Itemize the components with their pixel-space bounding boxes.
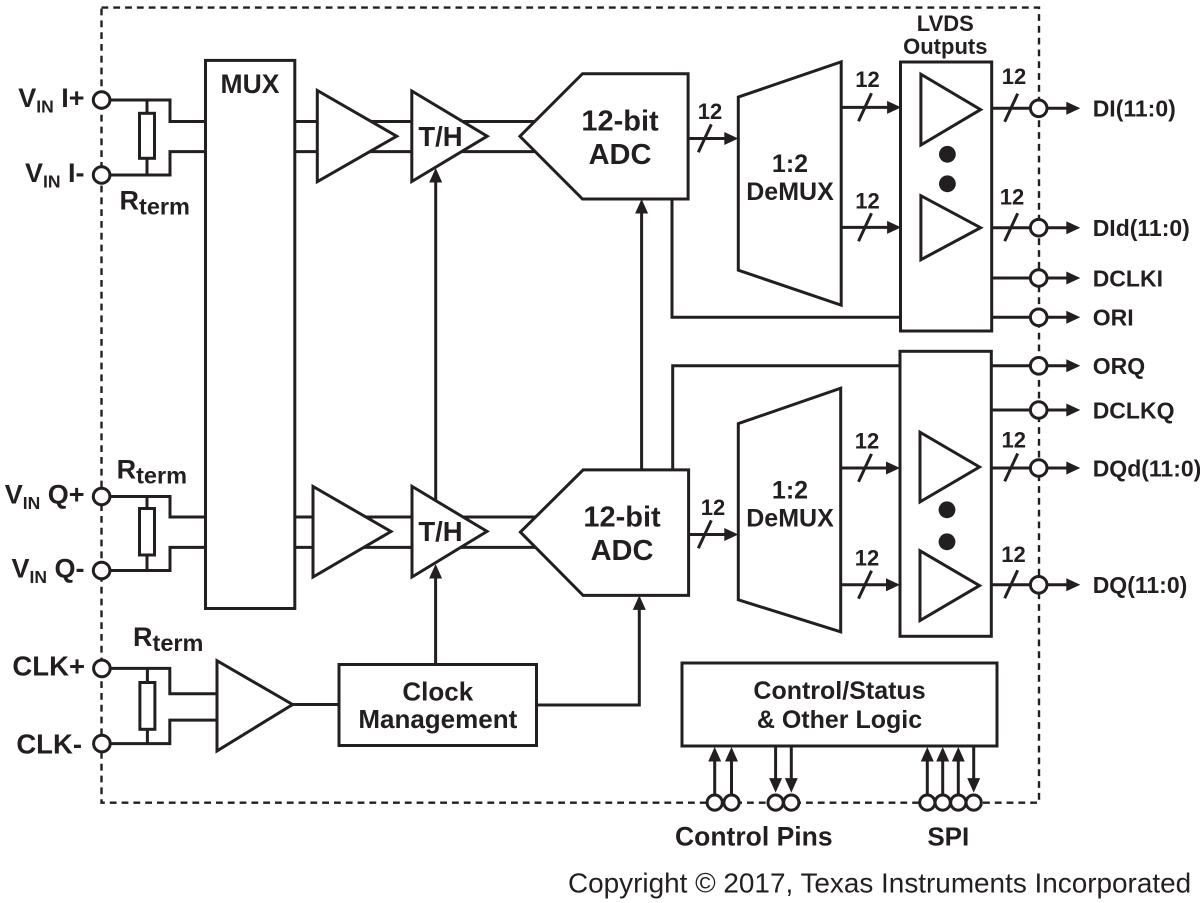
svg-text:ORQ: ORQ — [1093, 353, 1145, 379]
bus DeMUX1 lower to LVDS1 (12) — [841, 226, 888, 229]
wire Q-channel signal pair MUX to ADC2 — [295, 516, 620, 519]
T/H block 2 — [412, 486, 487, 577]
12-bit ADC block 2 — [520, 470, 688, 596]
wire CLK- to clock buffer — [102, 720, 217, 744]
svg-text:Clock: Clock — [402, 677, 473, 707]
svg-text:DQ(11:0): DQ(11:0) — [1093, 572, 1188, 598]
svg-text:12: 12 — [855, 546, 879, 571]
svg-text:Control/Status: Control/Status — [753, 677, 925, 705]
output terminal DCLKQ — [1030, 402, 1047, 419]
Control/Status block — [682, 663, 997, 746]
LVDS buffer 2a — [920, 432, 980, 502]
wire clock buffer to Clock Management — [293, 703, 339, 706]
svg-text:12: 12 — [701, 495, 725, 520]
LVDS buffer 1b — [921, 196, 981, 260]
output terminal DQ — [1030, 577, 1047, 594]
svg-text:T/H: T/H — [418, 516, 462, 547]
ellipsis dots block2 — [939, 501, 956, 518]
SPI up arrow 3 — [957, 761, 960, 795]
control pin down arrow 2 — [790, 746, 793, 780]
wire VIN Q+ to MUX — [102, 497, 206, 518]
svg-text:1:2: 1:2 — [772, 477, 808, 505]
svg-text:DId(11:0): DId(11:0) — [1093, 215, 1190, 241]
wire CLK+ to clock buffer — [102, 668, 217, 693]
output terminal DQd — [1030, 460, 1047, 477]
ellipsis dots block1 — [939, 146, 956, 163]
wire clock to ADC1 — [640, 213, 643, 470]
output DId(11:0) wire, slash, 12 — [992, 226, 1031, 229]
output DI(11:0) wire, slash, 12 — [992, 107, 1031, 110]
control pin up arrow 1 — [713, 761, 716, 795]
svg-text:12: 12 — [1001, 542, 1025, 567]
output DCLKQ wire — [991, 409, 1030, 412]
output terminal DCLKI — [1030, 270, 1047, 287]
svg-text:LVDS: LVDS — [917, 11, 974, 36]
T/H block 1 — [412, 91, 487, 182]
12-bit ADC block 1 — [520, 74, 688, 199]
input terminal VIN I- — [93, 167, 110, 184]
SPI up arrow 2 — [941, 761, 944, 795]
svg-text:MUX: MUX — [221, 69, 280, 99]
svg-text:12: 12 — [855, 189, 879, 214]
svg-text:Copyright © 2017, Texas Instru: Copyright © 2017, Texas Instruments Inco… — [568, 868, 1191, 899]
LVDS buffer 2b — [920, 551, 980, 621]
bus DeMUX1 upper to LVDS1 (12) — [841, 106, 888, 109]
svg-text:DCLKI: DCLKI — [1093, 265, 1163, 291]
input terminal CLK- — [94, 735, 111, 752]
output DCLKI wire — [992, 277, 1031, 280]
svg-text:12: 12 — [855, 67, 879, 92]
wire VIN Q- to MUX — [102, 547, 206, 570]
clock buffer amplifier — [217, 661, 293, 751]
output terminal ORQ — [1030, 358, 1047, 375]
svg-text:12-bit: 12-bit — [583, 501, 661, 533]
chip boundary dashed border — [102, 8, 1040, 803]
svg-text:12: 12 — [1000, 185, 1024, 210]
svg-text:VIN Q+: VIN Q+ — [5, 480, 85, 514]
svg-text:T/H: T/H — [418, 121, 462, 152]
svg-text:12: 12 — [698, 99, 722, 124]
resistor R_term (Q) leads — [146, 497, 149, 571]
SPI up arrow 1 — [926, 761, 929, 795]
output DQd(11:0) wire, slash, 12 — [991, 467, 1030, 470]
output DQ(11:0) wire, slash, 12 — [991, 583, 1030, 586]
resistor R_term (CLK) body — [140, 683, 155, 730]
bus DeMUX2 lower to LVDS2 (12) — [841, 583, 887, 586]
svg-text:VIN Q-: VIN Q- — [11, 554, 84, 588]
amplifier A1 (I channel) — [317, 91, 396, 182]
svg-text:DQd(11:0): DQd(11:0) — [1093, 455, 1200, 481]
wire I-channel signal pair MUX to ADC1 — [295, 120, 620, 123]
LVDS outputs block 2 — [900, 351, 991, 636]
Clock Management block — [339, 665, 537, 746]
svg-text:12: 12 — [1002, 64, 1026, 89]
wire VIN I+ to MUX — [102, 100, 206, 122]
svg-text:Control Pins: Control Pins — [675, 822, 833, 852]
input terminal CLK+ — [94, 660, 111, 677]
LVDS buffer 1a — [921, 74, 981, 145]
resistor R_term (CLK) leads — [146, 668, 149, 743]
bus ADC1 to DeMUX1 (12) — [688, 137, 725, 140]
svg-text:DeMUX: DeMUX — [746, 178, 834, 206]
svg-text:ADC: ADC — [589, 139, 652, 171]
input terminal VIN Q- — [93, 562, 110, 579]
SPI terminals — [920, 795, 935, 810]
svg-text:SPI: SPI — [927, 822, 969, 852]
svg-text:1:2: 1:2 — [772, 150, 808, 178]
wire clock to T/H2 — [434, 578, 437, 665]
output ORQ wire — [991, 364, 1030, 367]
input terminal VIN Q+ — [93, 488, 110, 505]
svg-text:Outputs: Outputs — [903, 34, 987, 59]
svg-text:ADC: ADC — [591, 535, 654, 567]
svg-text:CLK-: CLK- — [16, 729, 82, 760]
wire clock to ADC2 — [537, 609, 640, 705]
svg-text:DCLKQ: DCLKQ — [1093, 397, 1175, 423]
wire ORQ from ADC2 to LVDS block2 — [673, 366, 900, 470]
amplifier A2 (Q channel) — [313, 487, 391, 578]
svg-text:DeMUX: DeMUX — [746, 505, 834, 533]
wire ORI from ADC1 to LVDS block1 — [672, 199, 901, 317]
1:2 DeMUX block 1 — [738, 62, 841, 305]
SPI down arrow — [972, 746, 975, 780]
output ORI wire — [992, 316, 1031, 319]
LVDS outputs block 1 — [901, 62, 992, 331]
control pin terminals — [707, 795, 722, 810]
resistor R_term (Q) body — [140, 509, 155, 556]
svg-text:12: 12 — [855, 429, 879, 454]
output terminal DI — [1030, 100, 1047, 117]
svg-text:DI(11:0): DI(11:0) — [1093, 96, 1176, 122]
1:2 DeMUX block 2 — [738, 388, 840, 632]
output terminal ORI — [1030, 309, 1047, 326]
bus DeMUX2 upper to LVDS2 (12) — [841, 467, 887, 470]
input terminal VIN I+ — [93, 92, 110, 109]
output terminal DId — [1030, 219, 1047, 236]
svg-text:CLK+: CLK+ — [12, 651, 85, 682]
svg-text:12-bit: 12-bit — [581, 105, 659, 137]
wire VIN I- to MUX — [102, 152, 206, 175]
control pin up arrow 2 — [730, 761, 733, 795]
MUX block — [206, 60, 295, 608]
control pin down arrow 1 — [774, 746, 777, 780]
svg-text:Management: Management — [358, 704, 517, 734]
wire clock to T/H1 — [434, 182, 437, 501]
resistor R_term (I) leads — [146, 100, 149, 175]
bus ADC2 to DeMUX2 (12) — [689, 533, 726, 536]
svg-text:12: 12 — [1001, 428, 1025, 453]
svg-text:& Other Logic: & Other Logic — [757, 706, 922, 734]
svg-text:ORI: ORI — [1093, 305, 1134, 331]
resistor R_term (I) body — [140, 113, 155, 158]
